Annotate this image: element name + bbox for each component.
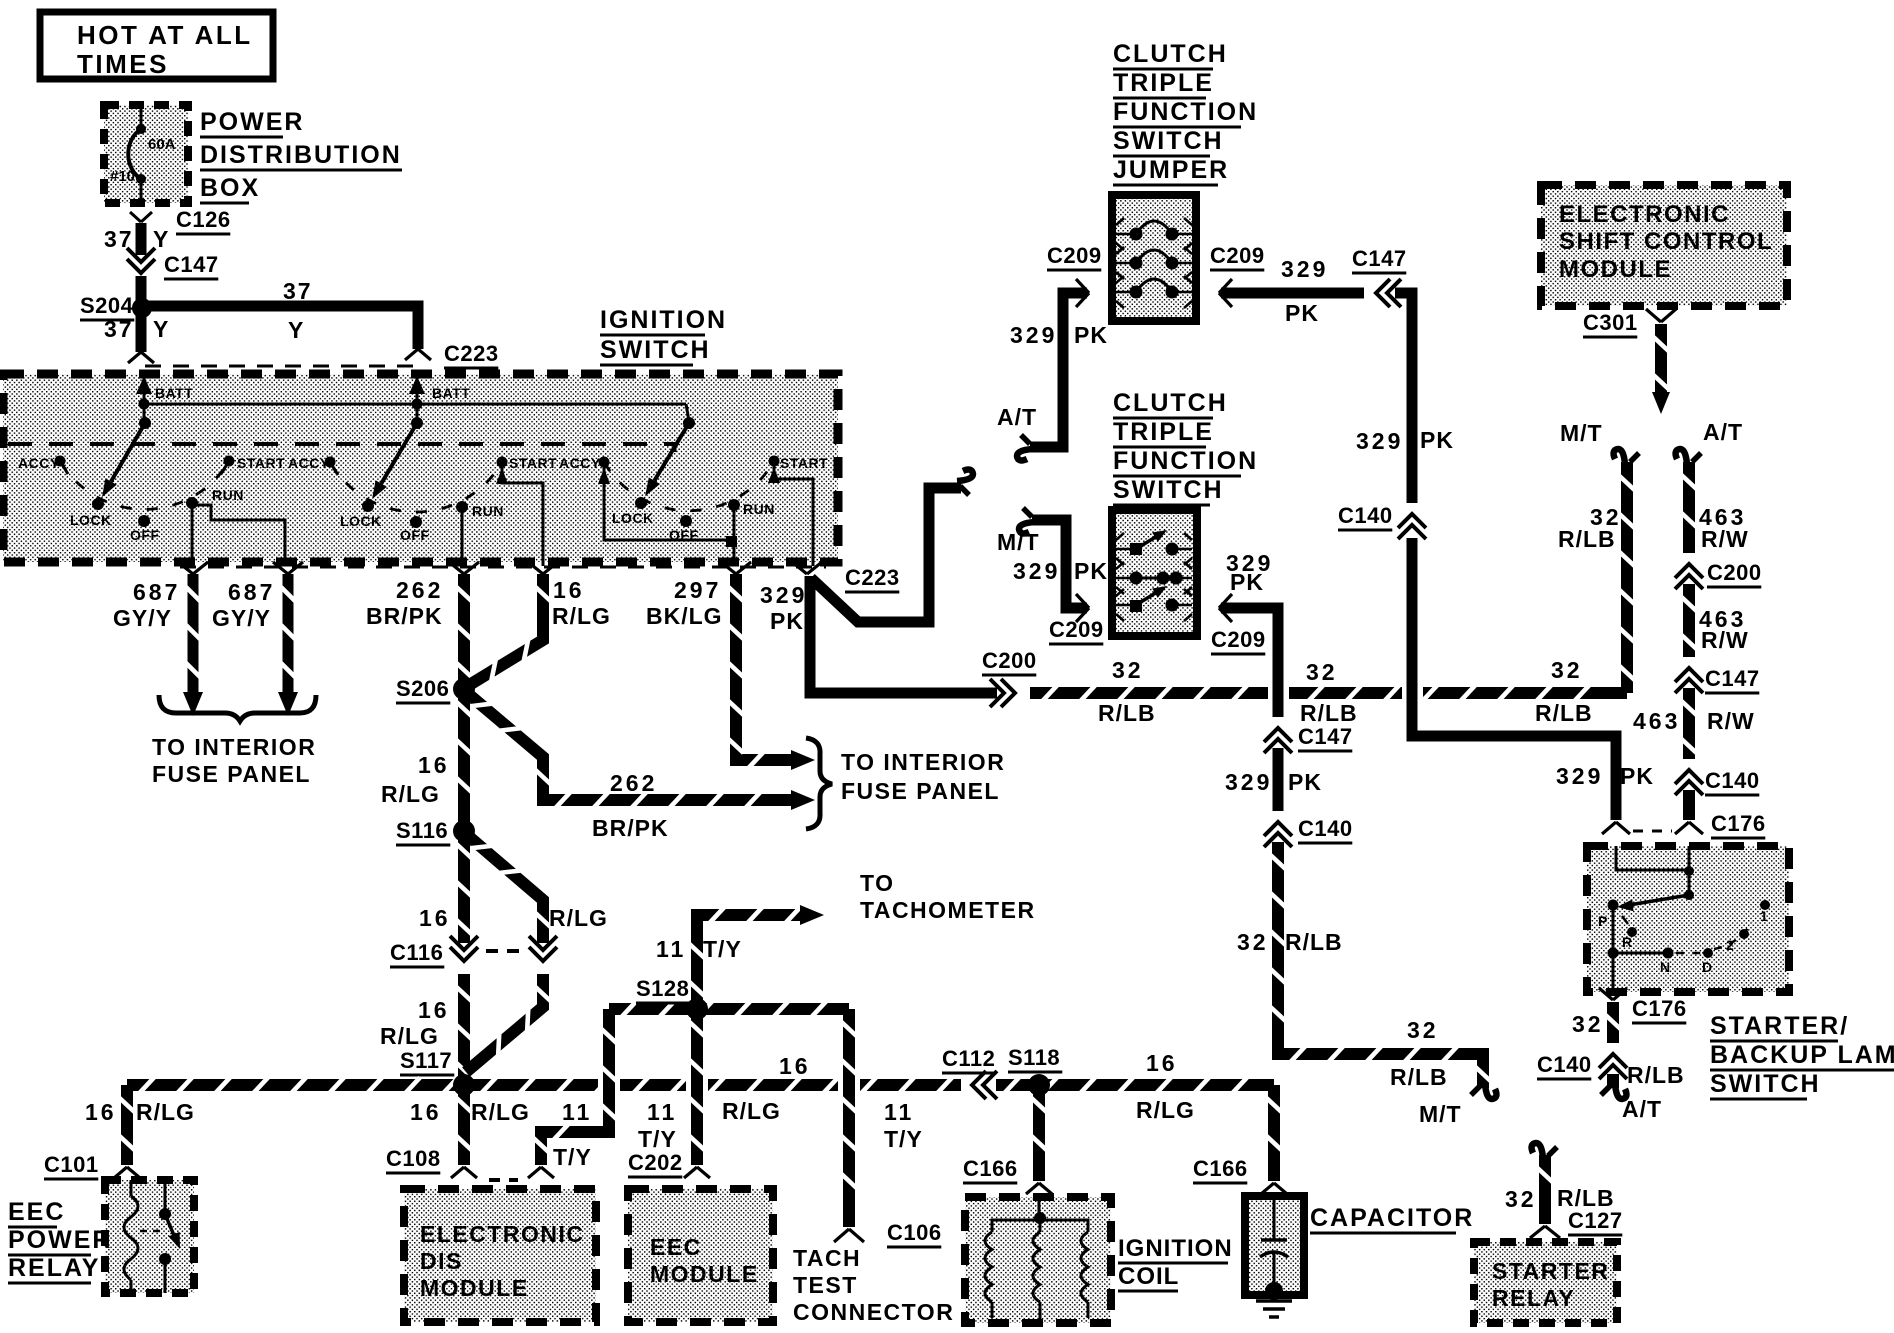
svg-text:MODULE: MODULE	[420, 1275, 529, 1301]
svg-text:SWITCH: SWITCH	[1113, 476, 1224, 504]
svg-text:C200: C200	[982, 648, 1037, 673]
wire 329 PK C147 to C140	[1225, 748, 1322, 812]
svg-text:ACCY: ACCY	[288, 455, 330, 471]
svg-text:SHIFT CONTROL: SHIFT CONTROL	[1559, 228, 1773, 255]
wire 329 PK clutch switch to C147 down	[1221, 550, 1289, 718]
electronic DIS module title	[420, 1221, 585, 1301]
svg-text:37: 37	[104, 316, 134, 342]
svg-text:R/LB: R/LB	[1558, 526, 1616, 552]
power distribution box	[104, 105, 188, 203]
dashed connector line below ignition switch	[180, 566, 826, 569]
svg-text:Y: Y	[153, 316, 170, 342]
svg-text:16: 16	[410, 1099, 442, 1125]
wire 329 PK M/T hook to clutch switch C209	[997, 520, 1108, 608]
wire 11 T/Y S128 up to tachometer arrow	[656, 905, 824, 1009]
wire 329 PK C147 down to C176	[1356, 293, 1654, 820]
wire 32 R/LB C140 to A/T hook	[1613, 1062, 1685, 1122]
svg-text:C147: C147	[1705, 666, 1760, 691]
svg-text:C202: C202	[628, 1150, 683, 1175]
svg-text:C166: C166	[1193, 1156, 1248, 1181]
svg-text:329: 329	[1556, 763, 1603, 789]
clutch triple function switch jumper title	[1113, 40, 1258, 185]
svg-text:ELECTRONIC: ELECTRONIC	[420, 1221, 585, 1247]
ignition switch set3 START output wire to 329 PK	[768, 461, 813, 566]
connector C140 inline on x1278 wire	[1264, 811, 1353, 847]
wire 687 GY/Y first	[113, 574, 203, 716]
svg-text:11: 11	[562, 1099, 592, 1125]
svg-text:C116: C116	[390, 940, 443, 965]
svg-text:RUN: RUN	[743, 501, 775, 517]
svg-text:R/LB: R/LB	[1285, 929, 1343, 955]
wire 262 BR/PK from ignition switch down to S206	[366, 574, 472, 684]
svg-text:PK: PK	[770, 608, 804, 634]
svg-text:C140: C140	[1537, 1052, 1592, 1077]
svg-text:329: 329	[1356, 428, 1403, 454]
svg-text:R/LG: R/LG	[381, 781, 440, 807]
wire 16 R/LG S206 to S116	[381, 689, 472, 831]
wire 16 R/LG C116 to S117	[380, 974, 472, 1085]
connector C166 at ignition coil	[963, 1156, 1052, 1194]
label 32 R/LB right	[1535, 657, 1593, 726]
svg-text:2: 2	[1726, 937, 1734, 953]
connector C176 flare left	[1602, 822, 1630, 834]
dashed connector line above ignition switch	[145, 365, 424, 368]
svg-text:463: 463	[1633, 708, 1680, 734]
connector flare into ignition switch at x141	[128, 352, 154, 363]
svg-text:TO INTERIOR: TO INTERIOR	[841, 749, 1005, 775]
svg-text:TACH: TACH	[793, 1245, 861, 1271]
wire 329 PK from C223 diagonal and down to C200	[760, 488, 998, 693]
svg-text:BATT: BATT	[432, 385, 470, 401]
svg-text:LOCK: LOCK	[340, 513, 382, 529]
capacitor title	[1310, 1204, 1474, 1233]
wire 16 R/LG left end down to C101	[85, 1085, 195, 1165]
svg-text:D: D	[1702, 959, 1712, 975]
hook M/T at top of 32 R/LB	[1614, 449, 1639, 465]
svg-text:FUSE PANEL: FUSE PANEL	[841, 778, 1000, 804]
to interior fuse panel label left	[152, 734, 316, 787]
svg-text:LOCK: LOCK	[612, 510, 654, 526]
svg-text:R/LG: R/LG	[380, 1023, 439, 1049]
svg-text:MODULE: MODULE	[1559, 256, 1672, 283]
svg-text:262: 262	[396, 577, 443, 603]
svg-text:R/LB: R/LB	[1390, 1064, 1448, 1090]
svg-text:TACHOMETER: TACHOMETER	[860, 897, 1036, 923]
wire 32 R/LB C176 to C140	[1572, 1002, 1621, 1044]
svg-text:16: 16	[419, 905, 451, 931]
connector C147 inline right of jumper	[1352, 246, 1407, 307]
svg-text:TRIPLE: TRIPLE	[1113, 69, 1214, 97]
connector C140 inline starter	[1537, 1043, 1627, 1079]
starter backup lamp switch internals	[1598, 846, 1770, 988]
wire 16 R/LG C116 right branch diagonal to S117	[466, 974, 551, 1072]
label 16 R/LG left of tach wire	[722, 1053, 811, 1124]
svg-text:BR/PK: BR/PK	[592, 815, 669, 841]
connector C112 inline	[942, 1046, 997, 1099]
fuse 60A J10 inside power distribution box	[110, 105, 176, 203]
label M/T right	[1560, 420, 1603, 446]
svg-text:R/LG: R/LG	[549, 905, 608, 931]
splice S118	[1008, 1045, 1062, 1096]
clutch triple function switch box	[1112, 510, 1197, 636]
ignition switch set1 RUN output wire to 687 wires	[192, 503, 285, 566]
starter relay box	[1474, 1242, 1617, 1323]
svg-text:R/W: R/W	[1701, 526, 1749, 552]
svg-text:C209: C209	[1049, 617, 1104, 642]
wire 32 R/LB corner up to M/T hook	[1620, 462, 1635, 693]
svg-text:FUNCTION: FUNCTION	[1113, 447, 1258, 475]
wire from C301 down with arrow	[1652, 324, 1670, 414]
svg-text:PK: PK	[1420, 427, 1454, 453]
hook A/T at top of 463 R/W	[1676, 449, 1701, 465]
svg-text:C147: C147	[164, 252, 219, 277]
wire 11 T/Y S128 down to C202	[638, 1009, 708, 1165]
wire 463 R/W C200 to C147	[1682, 584, 1749, 658]
hot at all times label box	[40, 12, 273, 79]
wire 16 R/LG S116 down to C116	[457, 831, 472, 944]
svg-text:T/Y: T/Y	[884, 1126, 923, 1152]
electronic shift control module title	[1559, 201, 1773, 283]
svg-text:RUN: RUN	[472, 503, 504, 519]
svg-text:32: 32	[1237, 929, 1269, 955]
svg-text:32: 32	[1572, 1011, 1604, 1037]
svg-text:Y: Y	[153, 226, 170, 252]
svg-text:BK/LG: BK/LG	[646, 603, 723, 629]
svg-text:S117: S117	[400, 1048, 452, 1073]
ignition switch contact set 1 (ACCY LOCK OFF RUN START)	[18, 417, 285, 543]
svg-text:R/LG: R/LG	[471, 1099, 530, 1125]
svg-text:START: START	[237, 455, 285, 471]
svg-text:FUSE PANEL: FUSE PANEL	[152, 761, 311, 787]
connector C209 left of jumper	[1047, 243, 1102, 307]
svg-text:A/T: A/T	[997, 404, 1037, 430]
wire 463 R/W from A/T hook down to C200	[1682, 462, 1749, 554]
svg-text:ELECTRONIC: ELECTRONIC	[1559, 201, 1730, 228]
hook A/T at clutch jumper wire	[1017, 435, 1033, 460]
svg-text:R: R	[1622, 934, 1632, 950]
ignition coil box	[965, 1197, 1111, 1323]
wire 11 T/Y S128 horizontal run	[609, 1002, 849, 1017]
wire 11 T/Y S118 down to ignition coil C166	[1032, 1085, 1047, 1181]
svg-text:#10: #10	[110, 168, 135, 185]
svg-text:OFF: OFF	[400, 527, 430, 543]
ignition switch output connector at x=736	[721, 562, 751, 574]
hook A/T at bottom right	[1601, 1083, 1626, 1099]
svg-text:R/LG: R/LG	[722, 1098, 781, 1124]
svg-text:M/T: M/T	[1419, 1101, 1462, 1127]
svg-text:S206: S206	[396, 676, 449, 701]
hook M/T at bottom	[1471, 1083, 1496, 1099]
label 16 R/LG below S117	[410, 1099, 530, 1125]
to interior fuse panel label right	[841, 749, 1005, 804]
wire 297 BK/LG from ignition switch to interior fuse panel	[646, 574, 815, 770]
svg-text:MODULE: MODULE	[650, 1261, 759, 1287]
svg-text:M/T: M/T	[1560, 420, 1603, 446]
svg-text:START: START	[780, 455, 828, 471]
EEC module box	[628, 1189, 773, 1322]
svg-text:STARTER: STARTER	[1492, 1258, 1609, 1284]
wire 16 R/LG horizontal after C112	[992, 1078, 1274, 1093]
svg-text:PK: PK	[1620, 763, 1654, 789]
svg-text:C176: C176	[1711, 811, 1766, 836]
svg-text:ACCY: ACCY	[559, 455, 601, 471]
svg-text:C140: C140	[1338, 503, 1393, 528]
svg-text:32: 32	[1551, 657, 1583, 683]
ignition switch output connector at x=464	[449, 562, 479, 574]
wire 11 T/Y down to tach test connector C106	[838, 1009, 923, 1227]
connector C209 left of clutch switch	[1049, 594, 1104, 644]
svg-text:COIL: COIL	[1118, 1263, 1179, 1290]
svg-text:16: 16	[553, 577, 585, 603]
connector C209 right of jumper	[1210, 243, 1265, 307]
svg-text:POWER: POWER	[200, 108, 304, 136]
starter backup lamp switch box	[1587, 846, 1789, 992]
svg-text:Y: Y	[288, 317, 305, 343]
svg-text:PK: PK	[1230, 569, 1264, 595]
svg-text:297: 297	[674, 577, 721, 603]
svg-text:CAPACITOR: CAPACITOR	[1310, 1204, 1474, 1232]
hook at 329 PK branch end	[957, 470, 973, 495]
svg-text:S118: S118	[1008, 1045, 1060, 1070]
svg-text:R/LB: R/LB	[1098, 700, 1156, 726]
svg-text:S116: S116	[396, 818, 448, 843]
svg-text:C209: C209	[1211, 627, 1266, 652]
wire 37 Y C147 to S204	[136, 276, 147, 308]
connector C108	[386, 1146, 554, 1180]
svg-text:329: 329	[1010, 322, 1057, 348]
svg-text:OFF: OFF	[130, 527, 160, 543]
svg-text:1: 1	[1760, 908, 1768, 924]
ignition switch set3 ACCY-RUN tie wire to 297 output	[598, 462, 737, 566]
svg-text:TO INTERIOR: TO INTERIOR	[152, 734, 316, 760]
starter relay title	[1492, 1258, 1609, 1311]
svg-text:N: N	[1660, 959, 1670, 975]
svg-text:C301: C301	[1583, 310, 1638, 335]
connector C126	[130, 207, 231, 234]
svg-text:C106: C106	[887, 1220, 942, 1245]
wire 11 T/Y from C108 up to S128 line	[534, 1009, 621, 1170]
svg-text:32: 32	[1505, 1186, 1537, 1212]
svg-text:TO: TO	[860, 870, 895, 896]
svg-text:C223: C223	[444, 341, 499, 366]
svg-text:A/T: A/T	[1622, 1096, 1662, 1122]
wire 32 R/LB horizontal from C200	[1030, 686, 1627, 701]
ignition switch output connector at x=807	[792, 562, 822, 574]
svg-text:R/W: R/W	[1701, 627, 1749, 653]
wire 16 R/LG S117 down to C108	[457, 1085, 472, 1165]
svg-text:329: 329	[1225, 769, 1272, 795]
svg-text:LOCK: LOCK	[70, 512, 112, 528]
wire 37 Y S204 down to ignition switch BATT	[104, 308, 170, 352]
wire 329 PK jumper to C147	[1221, 256, 1364, 326]
tach test connector label	[793, 1245, 954, 1325]
EEC power relay box	[105, 1180, 194, 1293]
electronic shift control module box	[1541, 185, 1787, 306]
connector C140 inline right	[1675, 759, 1760, 795]
svg-text:RELAY: RELAY	[8, 1254, 100, 1282]
svg-text:EEC: EEC	[8, 1198, 65, 1226]
splice S206	[396, 676, 475, 703]
svg-text:HOT AT ALL: HOT AT ALL	[77, 20, 253, 50]
connector C176 below switch	[1599, 988, 1687, 1023]
connector C147 inline	[127, 248, 155, 290]
svg-text:C140: C140	[1705, 768, 1760, 793]
to tachometer label	[860, 870, 1036, 923]
svg-text:16: 16	[779, 1053, 811, 1079]
svg-text:16: 16	[1146, 1050, 1178, 1076]
svg-text:329: 329	[1281, 256, 1328, 282]
svg-text:C176: C176	[1632, 996, 1687, 1021]
svg-text:CLUTCH: CLUTCH	[1113, 40, 1228, 68]
svg-text:A/T: A/T	[1703, 419, 1743, 445]
svg-text:IGNITION: IGNITION	[1118, 1235, 1233, 1262]
svg-text:16: 16	[85, 1099, 117, 1125]
EEC power relay coil	[124, 1180, 138, 1293]
svg-text:C147: C147	[1298, 724, 1353, 749]
svg-text:BACKUP LAMP: BACKUP LAMP	[1710, 1041, 1894, 1069]
svg-text:C126: C126	[176, 207, 231, 232]
svg-text:11: 11	[884, 1099, 914, 1125]
svg-text:TEST: TEST	[793, 1272, 858, 1298]
wire 32 R/LB down to starter relay	[1505, 1155, 1615, 1224]
svg-text:C166: C166	[963, 1156, 1018, 1181]
connector C202	[628, 1150, 710, 1178]
ignition switch output connector at x=193	[178, 562, 208, 574]
svg-text:C209: C209	[1047, 243, 1102, 268]
svg-text:CLUTCH: CLUTCH	[1113, 389, 1228, 417]
svg-text:JUMPER: JUMPER	[1113, 156, 1229, 184]
svg-text:IGNITION: IGNITION	[600, 306, 727, 334]
svg-text:R/W: R/W	[1707, 708, 1755, 734]
svg-text:PK: PK	[1074, 322, 1108, 348]
svg-text:R/LB: R/LB	[1535, 700, 1593, 726]
wire 37 Y horizontal S204 to C223	[142, 278, 418, 349]
svg-text:POWER: POWER	[8, 1226, 112, 1254]
wire 687 GY/Y second	[212, 574, 298, 716]
connector C106	[834, 1220, 942, 1247]
ignition switch internal dashed line	[8, 444, 675, 452]
svg-text:ACCY: ACCY	[18, 455, 60, 471]
svg-text:SWITCH: SWITCH	[1113, 127, 1224, 155]
svg-text:R/LB: R/LB	[1627, 1062, 1685, 1088]
wire 16 R/LG from ignition switch diagonal to S206	[466, 574, 611, 687]
capacitor ground symbol	[1256, 1301, 1292, 1317]
EEC power relay title	[8, 1198, 112, 1283]
svg-text:PK: PK	[1288, 769, 1322, 795]
svg-text:687: 687	[133, 579, 180, 605]
ignition switch contact set 3 (ACCY LOCK OFF RUN START)	[559, 417, 828, 543]
connector C147 inline on x1278 wire	[1264, 717, 1353, 753]
label M/T left of hook	[0, 0, 1, 1]
svg-text:T/Y: T/Y	[703, 936, 742, 962]
svg-text:C223: C223	[845, 565, 900, 590]
hook at starter relay wire top	[1532, 1143, 1557, 1159]
connector C127	[1530, 1208, 1623, 1238]
connector C140 inline on 329 PK	[1338, 503, 1426, 539]
clutch triple function switch title	[1113, 389, 1258, 505]
svg-text:32: 32	[1112, 657, 1144, 683]
svg-text:60A: 60A	[148, 136, 176, 153]
svg-text:C112: C112	[942, 1046, 995, 1071]
wire 262 BR/PK S206 branch diagonal to interior fuse panel	[466, 692, 815, 841]
svg-text:C108: C108	[386, 1146, 441, 1171]
connector C147 label	[164, 252, 219, 279]
brace right of fuse panel arrows	[806, 738, 832, 829]
label 32 R/LB on M/T vertical	[1558, 504, 1622, 552]
svg-text:CONNECTOR: CONNECTOR	[793, 1299, 954, 1325]
splice S117 label	[400, 1048, 454, 1075]
starter backup lamp switch title	[1710, 1012, 1894, 1099]
hook M/T at clutch switch wire	[1019, 508, 1035, 533]
connector C176 flare right	[1675, 811, 1766, 838]
svg-text:START: START	[509, 455, 557, 471]
clutch triple function switch jumper box	[1112, 195, 1196, 321]
svg-text:SWITCH: SWITCH	[1710, 1070, 1821, 1098]
connector C147 inline right	[1675, 657, 1760, 693]
connector C301	[1583, 309, 1676, 337]
ignition switch title	[600, 306, 727, 365]
svg-text:BATT: BATT	[155, 385, 193, 401]
ignition switch set2 RUN output wire	[461, 507, 464, 566]
svg-text:11: 11	[647, 1099, 677, 1125]
ignition switch box	[3, 374, 838, 562]
svg-text:PK: PK	[1285, 300, 1319, 326]
svg-text:R/LG: R/LG	[136, 1099, 195, 1125]
svg-text:S204: S204	[80, 293, 134, 318]
svg-text:687: 687	[228, 579, 275, 605]
ignition switch output connector at x=543	[528, 562, 558, 574]
svg-text:DISTRIBUTION: DISTRIBUTION	[200, 141, 402, 169]
svg-text:C209: C209	[1210, 243, 1265, 268]
connector C223 flare at ignition switch entry	[405, 341, 499, 368]
capacitor box	[1245, 1196, 1304, 1295]
ignition coil windings	[985, 1197, 1088, 1322]
connector C223 label below ignition switch	[845, 565, 900, 592]
electronic DIS module box	[404, 1189, 596, 1322]
svg-text:16: 16	[418, 752, 450, 778]
svg-text:16: 16	[418, 997, 450, 1023]
wire 463 R/W C147 to C140	[1633, 688, 1755, 760]
wire 16 R/LG corner down to capacitor C166	[1267, 1085, 1282, 1181]
connector C101	[44, 1152, 140, 1179]
connector C200 inline	[982, 648, 1037, 707]
svg-text:C147: C147	[1352, 246, 1407, 271]
splice S117	[453, 1074, 475, 1096]
svg-text:S128: S128	[636, 976, 689, 1001]
svg-text:C200: C200	[1707, 560, 1762, 585]
svg-text:TIMES: TIMES	[77, 49, 169, 79]
connector C166 at capacitor	[1193, 1156, 1287, 1194]
svg-text:T/Y: T/Y	[553, 1144, 592, 1170]
wire 463 R/W C140 to C176	[1683, 790, 1695, 820]
svg-text:PK: PK	[1074, 558, 1108, 584]
svg-text:BR/PK: BR/PK	[366, 603, 443, 629]
svg-text:BOX: BOX	[200, 174, 260, 202]
svg-text:C101: C101	[44, 1152, 99, 1177]
svg-text:SWITCH: SWITCH	[600, 336, 711, 364]
wire 329 PK A/T hook to jumper C209	[997, 293, 1108, 447]
svg-text:C140: C140	[1298, 816, 1353, 841]
connector C116 inline on both wires	[390, 936, 557, 978]
label 32 R/LB mid	[1300, 659, 1358, 726]
svg-text:329: 329	[760, 582, 807, 608]
wire 37 Y C126 to C147	[104, 223, 170, 257]
svg-text:T/Y: T/Y	[638, 1126, 677, 1152]
BATT bus line inside ignition switch	[139, 399, 690, 424]
svg-text:262: 262	[610, 770, 657, 796]
splice S116	[396, 818, 475, 845]
wire 16 R/LG S116 diagonal branch to C116	[419, 834, 608, 944]
